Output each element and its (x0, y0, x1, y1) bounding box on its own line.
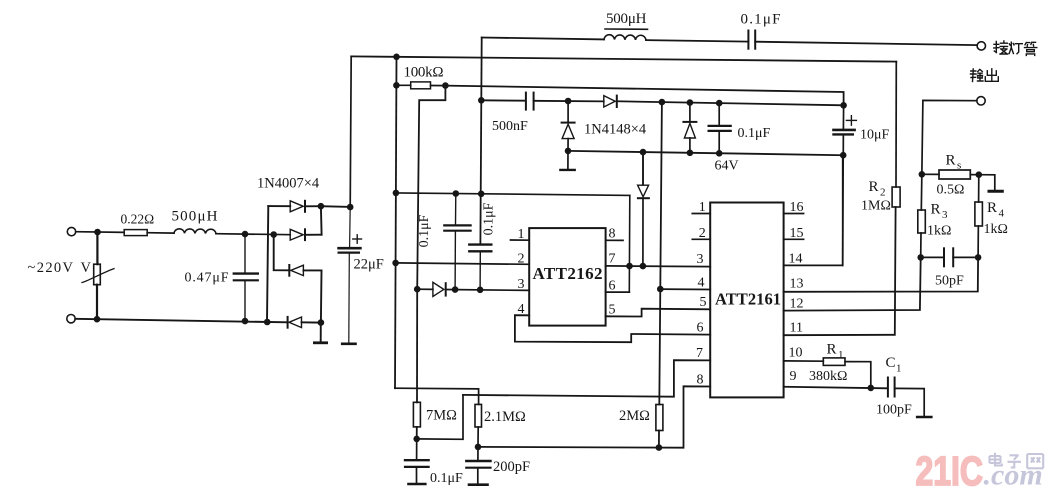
svg-text:4: 4 (698, 276, 705, 291)
wire U2 pin10 (784, 360, 824, 362)
capacitor 0.47uF (234, 234, 258, 321)
node capB bottom (477, 287, 484, 294)
wire bridge plus to bus2 (321, 205, 350, 208)
node varistor top (94, 229, 101, 236)
node W193 capA (453, 190, 460, 197)
wire U2 pin9 (784, 387, 887, 389)
zener 64V (683, 103, 696, 153)
svg-text:0.1μF: 0.1μF (482, 202, 497, 235)
svg-text:1: 1 (518, 227, 525, 242)
wire bus3 supply (445, 86, 843, 106)
svg-text:6: 6 (609, 279, 616, 294)
diode D3 (289, 265, 321, 323)
diode D4 (288, 317, 321, 328)
resistor Rs 0.5 (922, 170, 979, 179)
varistor V (82, 232, 114, 319)
wire W193 (396, 193, 630, 196)
node D8 cathode capA (452, 286, 459, 293)
svg-text:1: 1 (699, 200, 706, 215)
wire 2M column (659, 102, 662, 405)
resistor 0.22ohm (124, 230, 174, 236)
svg-text:15: 15 (790, 226, 804, 241)
node D8 anode (414, 286, 421, 293)
node 0.47uF top (242, 231, 249, 238)
node 10uF bottom (840, 152, 847, 159)
logo dianziwang (electronics net) (990, 453, 1044, 469)
wire 100k right jog down (417, 86, 445, 290)
svg-text:.com: .com (984, 459, 1043, 492)
node 2.1M bottom (475, 444, 482, 451)
wire bus2 column top (350, 56, 351, 207)
svg-text:1N4148×4: 1N4148×4 (584, 122, 647, 138)
node 2M column top (659, 99, 666, 106)
node bridge left column bottom (264, 319, 271, 326)
svg-text:13: 13 (790, 277, 804, 292)
svg-text:14: 14 (789, 252, 803, 267)
wire W193 drop to U1 pins (628, 195, 631, 292)
svg-text:200pF: 200pF (493, 459, 530, 475)
svg-text:2MΩ: 2MΩ (619, 408, 650, 424)
svg-text:8: 8 (697, 373, 704, 388)
node 0.47uF bottom (242, 318, 249, 325)
wire U1 pin6 stub (606, 291, 630, 293)
node bridge plus (318, 203, 325, 210)
svg-text:0.47μF: 0.47μF (185, 271, 229, 286)
ground 22uF (342, 342, 355, 345)
ground C1 (917, 416, 931, 419)
lamp terminal (977, 42, 985, 50)
node zener top (687, 99, 694, 106)
resistor R3 1k (918, 174, 926, 257)
node 100k right (442, 82, 449, 89)
svg-text:3: 3 (942, 209, 948, 221)
svg-text:0.5Ω: 0.5Ω (937, 183, 965, 198)
wire U1 pin4 jog to U2 pin6 (515, 315, 710, 342)
node cap3 bottom (716, 150, 723, 157)
diode D5 (604, 96, 617, 107)
wire U2 pin12 (784, 257, 921, 310)
ground 0.1uF 4 (409, 483, 426, 486)
wire bus2 column to cap (349, 207, 352, 247)
capacitor 50pF (921, 248, 978, 266)
svg-text:1: 1 (896, 363, 902, 375)
svg-text:0.22Ω: 0.22Ω (121, 212, 155, 227)
capacitor 0.1uF A (444, 194, 470, 290)
svg-text:7: 7 (609, 252, 616, 267)
capacitor 0.1uF 4 (405, 439, 429, 483)
pin stub U2-2 (692, 238, 710, 240)
svg-text:4: 4 (518, 302, 525, 317)
wire 10uF bottom to U2 pin14 (842, 155, 845, 265)
capacitor 10uF (834, 105, 855, 155)
node Rs left (919, 171, 926, 178)
wire diode chain output (617, 101, 844, 105)
diode D1 (268, 201, 321, 212)
wire line A 100k column to 2.1M (395, 388, 479, 404)
svg-text:0.1μF: 0.1μF (738, 126, 771, 141)
svg-text:500μH: 500μH (172, 209, 218, 225)
svg-text:4: 4 (999, 208, 1005, 220)
svg-text:~220V: ~220V (28, 260, 74, 276)
label 500uH underline (605, 28, 648, 30)
svg-text:R: R (987, 200, 997, 216)
wire AC bottom (75, 319, 287, 323)
wire line B to U2 pin7 (463, 360, 710, 397)
ground 200pF (469, 483, 488, 486)
node W193 left (393, 190, 400, 197)
svg-text:2: 2 (880, 187, 886, 199)
ground bridge (314, 323, 326, 343)
ground D6 (560, 151, 574, 170)
diode D8 (433, 282, 446, 296)
node D6 bottom (565, 148, 572, 155)
node D6 top (565, 98, 572, 105)
svg-text:5: 5 (609, 303, 616, 318)
wire U1 pin7 to U2 pin3 (606, 265, 711, 268)
resistor 2M (656, 405, 663, 448)
pin stub U2-16 (784, 213, 804, 215)
svg-text:500μH: 500μH (606, 11, 647, 27)
svg-text:21IC: 21IC (916, 448, 984, 494)
svg-text:3: 3 (518, 277, 525, 292)
node zener bottom (687, 150, 694, 157)
svg-text:1N4007×4: 1N4007×4 (257, 176, 320, 192)
node R1 to pin9 (868, 385, 875, 392)
label jiedengguan (connect lamp tube) (994, 41, 1037, 55)
svg-text:ATT2161: ATT2161 (715, 290, 781, 309)
wire AC1 down to D3 (274, 235, 290, 271)
svg-text:100pF: 100pF (876, 403, 912, 418)
resistor 100k (396, 82, 445, 89)
svg-text:64V: 64V (715, 159, 739, 174)
wire U1 pin2 (396, 263, 530, 264)
capacitor 0.1uF 3 (709, 103, 731, 153)
svg-text:7MΩ: 7MΩ (426, 408, 457, 424)
diode D9 (638, 152, 649, 266)
capacitor 0.1uF top (748, 31, 755, 49)
wire lamp bus vertical (480, 38, 481, 244)
wire U1 pin3 (417, 289, 529, 290)
svg-text:12: 12 (790, 297, 804, 312)
capacitor C1 100pF (888, 378, 924, 416)
node 50pF right (975, 254, 982, 261)
svg-text:1kΩ: 1kΩ (927, 224, 951, 239)
node bus2 column / bridge (347, 204, 354, 211)
label shuchu (output) (971, 69, 999, 82)
node Rs right (976, 171, 983, 178)
svg-text:0.1μF: 0.1μF (417, 214, 432, 247)
svg-text:0.1μF: 0.1μF (430, 471, 463, 486)
svg-text:500nF: 500nF (492, 119, 528, 134)
pin stub U2-15 (784, 238, 804, 240)
svg-text:2.1MΩ: 2.1MΩ (484, 409, 526, 425)
wire 7M bottom to line B (417, 395, 463, 439)
svg-text:s: s (957, 160, 961, 172)
svg-text:2: 2 (518, 251, 525, 266)
wire output (922, 100, 977, 174)
wire AC top (76, 231, 125, 234)
node bus2 100k column (393, 54, 400, 61)
node cap3 top (716, 100, 723, 107)
node U2 pin4 junction (657, 286, 664, 293)
node 10uF top (840, 102, 847, 109)
svg-text:ATT2162: ATT2162 (533, 264, 603, 283)
pin stub U1-1 (511, 239, 530, 241)
node 100k left (393, 82, 400, 89)
AC input terminal top (67, 227, 75, 235)
svg-text:8: 8 (609, 227, 616, 242)
node U1 pin7 wire (626, 263, 633, 270)
wire 100k left column (395, 57, 397, 388)
diode D6 (562, 101, 575, 151)
node W193 busV (478, 191, 485, 198)
capacitor 22uF (339, 248, 361, 343)
node 7M bottom (413, 436, 420, 443)
svg-text:50pF: 50pF (935, 274, 964, 289)
ground Rs (979, 175, 1003, 192)
wire common rail W152 (568, 151, 843, 155)
pin stub U1-8 (606, 239, 623, 241)
node 2M bottom (656, 444, 663, 451)
svg-text:R: R (869, 179, 879, 195)
inductor 500uH left (174, 229, 216, 234)
node D9 top (640, 149, 647, 156)
svg-text:100kΩ: 100kΩ (404, 65, 444, 81)
AC input terminal bottom (67, 315, 75, 323)
pin stub U2-1 (692, 213, 710, 215)
wire bridge left column (267, 206, 268, 322)
svg-text:1MΩ: 1MΩ (861, 199, 891, 214)
capacitor 0.1uF B (469, 245, 491, 290)
resistor 2.1M (475, 404, 482, 447)
wire bus2 rectified rail (351, 56, 896, 61)
wire U2 pin14 (784, 155, 843, 265)
svg-text:2: 2 (699, 226, 706, 241)
capacitor 200pF (466, 447, 490, 483)
svg-text:C: C (886, 355, 896, 371)
diode D2 (290, 206, 321, 240)
wire U2 pin4 (660, 288, 710, 290)
wire 7M column (416, 289, 418, 402)
output terminal (977, 97, 985, 105)
svg-text:1kΩ: 1kΩ (984, 222, 1008, 237)
wire W447 to U2 pin8 (478, 386, 710, 447)
node bridge minus (318, 319, 325, 326)
resistor R4 1k (975, 175, 983, 258)
node D9 bottom on pin3 wire (640, 263, 647, 270)
inductor 500uH top (604, 35, 646, 40)
capacitor 500nF (481, 93, 604, 110)
node U1 pin2 wire (392, 260, 399, 267)
IC U1 ATT2162 (529, 228, 605, 326)
svg-text:16: 16 (790, 200, 804, 215)
IC U2 ATT2161 (710, 203, 783, 398)
node AC1 to D3 (270, 231, 277, 238)
node 50pF left (917, 254, 924, 261)
svg-text:3: 3 (697, 252, 704, 267)
resistor R2 1M (892, 62, 900, 207)
svg-text:R: R (827, 342, 837, 358)
svg-text:10: 10 (789, 346, 803, 361)
svg-text:7: 7 (696, 346, 703, 361)
wire U2 pin11 (784, 207, 896, 335)
wire bus1 lamp rail (482, 38, 977, 46)
svg-text:10μF: 10μF (860, 128, 890, 143)
wire U2 pin13 (784, 257, 979, 291)
svg-text:V: V (81, 260, 92, 276)
capacitor 22uF plus sign (353, 235, 362, 243)
svg-text:22μF: 22μF (354, 257, 384, 273)
wire to bridge (216, 234, 290, 235)
svg-text:6: 6 (697, 321, 704, 336)
svg-text:5: 5 (700, 295, 707, 310)
node varistor bottom (94, 316, 101, 323)
resistor 7M (413, 402, 420, 439)
svg-text:R: R (946, 153, 956, 169)
svg-text:9: 9 (790, 369, 797, 384)
svg-text:R: R (931, 202, 941, 218)
node 500nF left (478, 97, 485, 104)
resistor R1 380k (823, 358, 871, 388)
svg-text:11: 11 (790, 321, 803, 336)
wire U1 pin5 jog to U2 pin5 (606, 309, 711, 317)
svg-text:0.1μF: 0.1μF (741, 12, 781, 28)
capacitor 10uF plus (846, 116, 856, 126)
svg-text:380kΩ: 380kΩ (809, 369, 847, 384)
svg-text:1: 1 (838, 349, 844, 361)
